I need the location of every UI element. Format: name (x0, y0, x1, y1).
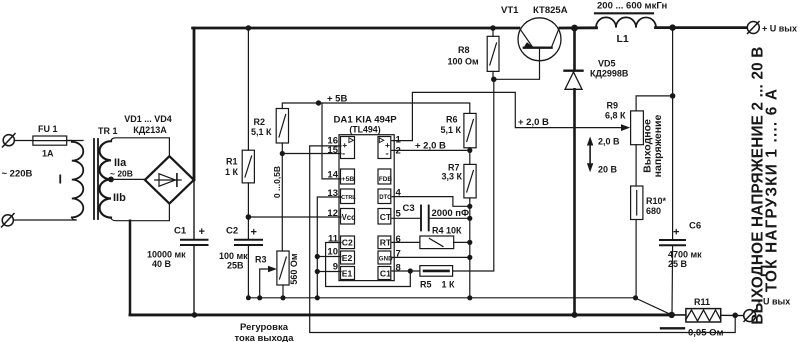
svg-text:RT: RT (380, 238, 392, 248)
label R1 1K (225, 157, 239, 178)
svg-text:R6: R6 (446, 115, 458, 125)
svg-text:DTC: DTC (379, 195, 392, 201)
node R8 rail junction (490, 25, 496, 31)
fuse FU1 (33, 136, 83, 145)
label Vykhodnoe napryazhenie vertical (642, 114, 665, 177)
wire bus diagonal to output minus junction (635, 298, 672, 315)
svg-text:КД213А: КД213А (133, 125, 167, 135)
svg-text:+ 2,0 В: + 2,0 В (415, 141, 446, 152)
wire R2 to R3 node 0...0,5V (281, 154, 283, 252)
wire pin 1 to voltage set (392, 92, 624, 140)
transformer TR1 secondary winding IIa (100, 141, 112, 179)
node R9 branch junction (670, 93, 676, 99)
wire pin 16 current sense line (310, 146, 736, 333)
wire R7 top (469, 150, 471, 164)
label 200...600 mkGn with underline (595, 1, 667, 14)
svg-text:8: 8 (396, 262, 401, 273)
potentiometer R3 (277, 251, 289, 285)
svg-text:GND: GND (379, 255, 393, 262)
svg-text:+: + (199, 226, 205, 238)
svg-text:+ U вых: + U вых (762, 24, 797, 34)
node R10 bus junction (633, 295, 638, 300)
wire junction down to VD5 (573, 28, 576, 70)
resistor R4 (420, 236, 454, 249)
svg-text:1 К: 1 К (225, 167, 239, 177)
chip cell FDB pin3 (378, 169, 392, 184)
node R3 wiper bus junction (257, 295, 262, 300)
svg-text:C2: C2 (226, 226, 238, 237)
svg-text:КТ825А: КТ825А (533, 5, 568, 16)
node +5V pin14 junction (316, 100, 321, 105)
wire C2 to common bus (248, 246, 634, 298)
svg-text:0,05 Ом: 0,05 Ом (688, 328, 724, 339)
wire C1 to minus bus (193, 246, 195, 315)
svg-text:C1: C1 (380, 268, 391, 278)
label output voltage current vertical line1 (750, 46, 767, 324)
wire R1 to Vcc node (247, 183, 249, 217)
node C1 bus junction (192, 312, 198, 318)
svg-text:тока выхода: тока выхода (235, 333, 295, 342)
diode symbol inside bridge (155, 174, 181, 186)
transformer TR1 primary winding I (67, 141, 84, 221)
svg-text:9: 9 (333, 262, 338, 273)
chip cell Vcc pin12 (341, 209, 357, 225)
svg-text:20 В: 20 В (598, 165, 618, 175)
wire divider common vertical (469, 206, 471, 297)
wire R10 to bus (635, 220, 637, 298)
node pin13 bus junction (315, 295, 320, 300)
node divider bus junction (467, 295, 472, 300)
wire C3 right (430, 217, 470, 219)
label C2 + (226, 226, 257, 239)
svg-text:25В: 25В (227, 261, 244, 271)
wire R11 to terminal (721, 314, 744, 316)
wire C6 to minus junction (671, 246, 674, 315)
svg-text:CT: CT (380, 212, 392, 222)
node R2 pin15 junction (280, 151, 285, 156)
wire pin 10 E2 (317, 256, 341, 258)
svg-text:R5 1 К: R5 1 К (420, 280, 455, 290)
svg-text:R11: R11 (694, 297, 710, 307)
svg-text:C2: C2 (342, 238, 353, 248)
wire top rail right segment (560, 26, 597, 29)
svg-text:VD1 ... VD4: VD1 ... VD4 (124, 114, 172, 124)
svg-text:5,1 К: 5,1 К (441, 125, 462, 135)
node R1 top rail junction (246, 25, 252, 31)
resistor R11 shunt (686, 309, 721, 322)
label 100mk 25V (219, 251, 248, 271)
chip cell +5B pin14 (341, 169, 355, 184)
wire R6 bottom (469, 148, 471, 151)
wire C6 branch vertical (672, 28, 674, 239)
node center tap (108, 177, 144, 183)
svg-text:10: 10 (327, 247, 338, 258)
node pin2 R6 R7 junction (467, 148, 472, 153)
node Vcc junction (246, 214, 252, 220)
label Regurovka toka vykhoda (235, 322, 295, 342)
capacitor C1 (181, 240, 208, 245)
label FU1 1A (38, 124, 58, 159)
resistor R7 (464, 164, 476, 198)
node C2 bus corner (246, 295, 251, 300)
svg-text:+: + (251, 227, 257, 239)
wire R3 bottom to bus (282, 285, 284, 298)
wire pin 5 to C3 (392, 217, 420, 219)
chip cell DTC pin4 (378, 189, 392, 204)
label R8 100 Om (448, 45, 480, 67)
resistor R5 (420, 266, 453, 277)
label VD1...VD4 KD213A (124, 114, 172, 135)
svg-text:3,3 К: 3,3 К (442, 172, 463, 182)
label R6 5,1K (441, 115, 462, 136)
svg-text:C1: C1 (174, 226, 187, 237)
svg-text:14: 14 (327, 170, 338, 181)
wire branch to R9 top (636, 96, 673, 111)
svg-text:+5B: +5B (342, 176, 355, 183)
wire R8 to base node (492, 71, 494, 79)
wire base node to transistor base (494, 48, 540, 79)
bridge rectifier VD1...VD4 diamond (145, 156, 194, 203)
node E2 junction (315, 254, 320, 259)
svg-text:L1: L1 (617, 33, 629, 45)
svg-text:E2: E2 (342, 253, 353, 263)
arrowhead R9 wiper (621, 124, 630, 131)
chip left comparator cell (341, 137, 355, 160)
svg-text:VD5: VD5 (598, 59, 616, 69)
wire junction to R11 (672, 314, 686, 316)
chip cell CT pin5 (378, 209, 392, 225)
chip cell RT pin6 (378, 236, 392, 249)
svg-text:2000 пФ: 2000 пФ (432, 208, 470, 219)
node collector VD5 L1 junction (571, 25, 578, 32)
label DA1 KIA 494P (TL494) (334, 115, 398, 135)
svg-text:I: I (59, 173, 62, 187)
node base junction (491, 77, 497, 83)
svg-text:R9: R9 (607, 101, 619, 111)
wire R2 top to +5V rail (282, 103, 470, 113)
svg-text:+: + (673, 227, 679, 239)
wire minus bus thick bottom (130, 313, 672, 316)
inductor L1 (596, 17, 656, 27)
node R4 junction (467, 240, 472, 245)
wire secondary bottom lead to bridge (111, 205, 169, 221)
wire R3 wiper arrow (260, 266, 277, 298)
wire Vcc node to C2 (247, 217, 249, 239)
label R10* 680 (646, 196, 667, 216)
wire pin 11 to pin 8 loop (326, 243, 411, 287)
label 4700mk 25V (668, 250, 702, 270)
svg-text:R3: R3 (255, 255, 267, 265)
chip cell C2 pin11 (341, 236, 355, 249)
label R2 5,1K (251, 117, 272, 137)
potentiometer R9 (631, 111, 644, 145)
wire pin 9 E1 (317, 271, 341, 273)
svg-text:R10*: R10* (646, 196, 667, 206)
svg-text:6: 6 (396, 234, 401, 245)
wire bridge plus output up to top rail (193, 28, 196, 180)
label VT1 KT825A (501, 5, 568, 16)
svg-text:IIa: IIa (114, 157, 127, 169)
capacitor C3 (421, 206, 429, 231)
wire pin 8 to R5 (392, 270, 420, 272)
wire pin 7 GND (392, 256, 470, 258)
svg-text:КД2998В: КД2998В (590, 69, 629, 79)
svg-text:R4 10К: R4 10К (432, 226, 462, 236)
chip cell E2 pin10 (341, 251, 355, 264)
svg-text:560 Ом: 560 Ом (289, 253, 299, 285)
wire Vcc node to pin 12 (248, 216, 341, 218)
arrow voltage range (587, 137, 593, 173)
terminal output plus (747, 22, 759, 34)
wire rail to R8 (492, 28, 494, 36)
svg-text:200 ... 600 мкГн: 200 ... 600 мкГн (597, 1, 667, 12)
svg-text:25 В: 25 В (668, 259, 688, 269)
svg-text:-: - (342, 149, 345, 160)
node GND junction (467, 255, 472, 260)
svg-text:0 ...0,5В: 0 ...0,5В (272, 166, 282, 198)
node R7 pin4 junction (467, 204, 472, 209)
label output voltage current vertical line2 (764, 88, 781, 292)
svg-text:CTRL: CTRL (341, 195, 356, 201)
svg-text:6,8 К: 6,8 К (605, 111, 626, 121)
node VD5 bus junction (572, 312, 578, 318)
svg-text:40 В: 40 В (152, 259, 172, 269)
wire bridge to C1 (193, 180, 195, 239)
svg-text:12: 12 (327, 208, 338, 219)
svg-text:E1: E1 (342, 268, 353, 278)
svg-text:FU 1: FU 1 (38, 124, 58, 134)
chip cell C1 pin8 (378, 267, 391, 280)
svg-text:TR 1: TR 1 (98, 126, 118, 136)
wire secondary top lead to bridge (111, 138, 169, 155)
svg-text:Vcc: Vcc (342, 213, 357, 222)
wire pin 6 to R4 (392, 241, 420, 243)
node output minus junction (669, 312, 675, 318)
wire R7 bottom to node (469, 198, 471, 206)
transistor VT1 (518, 18, 561, 61)
svg-text:1А: 1А (42, 149, 54, 159)
wire pin 2 (392, 149, 470, 151)
transformer TR1 secondary winding IIb (100, 179, 112, 217)
wire R5 to base drive (453, 79, 494, 271)
node R3 bus junction (280, 295, 285, 300)
resistor R8 (487, 36, 499, 71)
chip cell CTRL pin13 (341, 189, 357, 204)
label C6 + (673, 221, 701, 239)
svg-text:100 мк: 100 мк (219, 251, 248, 261)
svg-text:+ 2,0 В: + 2,0 В (518, 117, 549, 128)
op-amp chip DA1 KIA494P outline (339, 135, 394, 281)
svg-text:ТОК НАГРУЗКИ 1 .... 6 А: ТОК НАГРУЗКИ 1 .... 6 А (764, 88, 781, 292)
svg-text:C6: C6 (689, 221, 701, 232)
transformer TR1 core (94, 139, 98, 219)
node R11 sense junction (732, 313, 738, 319)
ground tick mark (661, 327, 684, 329)
svg-text:R8: R8 (458, 45, 470, 55)
svg-text:R2: R2 (254, 117, 266, 127)
label 10000mk 40V (147, 250, 186, 270)
capacitor C6 (660, 240, 685, 245)
resistor R10 (631, 186, 643, 220)
label R7 3,3K (442, 163, 463, 182)
svg-text:~ 220В: ~ 220В (2, 169, 33, 180)
wire R9 to R10 (635, 145, 637, 186)
svg-text:2,0 В: 2,0 В (598, 137, 620, 147)
terminal input bottom ~220V (2, 214, 77, 228)
label VD5 KD2998V (590, 59, 629, 79)
svg-text:680: 680 (646, 206, 661, 216)
capacitor C2 (235, 240, 262, 245)
wire pin 13 common (317, 197, 341, 298)
resistor R1 (242, 150, 254, 183)
svg-text:Регуровка: Регуровка (240, 322, 289, 333)
wire VD5 anode to minus bus (573, 89, 576, 315)
diode VD5 (565, 71, 583, 90)
svg-text:5,1 К: 5,1 К (251, 127, 272, 137)
wire R2 bottom to pin 15 (282, 143, 341, 154)
svg-text:IIb: IIb (113, 192, 126, 204)
terminal input top ~220V (3, 134, 33, 148)
node C3 junction (467, 216, 472, 221)
wire R4 right (454, 241, 470, 243)
chip cell E1 pin9 (341, 267, 355, 280)
svg-text:VT1: VT1 (501, 5, 519, 16)
label IIa ~20V (110, 157, 133, 179)
svg-text:+ 5В: + 5В (327, 94, 347, 105)
terminal output minus (744, 310, 756, 322)
resistor R2 (276, 109, 288, 144)
svg-text:-: - (386, 149, 389, 160)
svg-text:FDB: FDB (379, 176, 393, 183)
svg-text:напряжение: напряжение (652, 114, 664, 177)
wire pin 14 to +5V rail (322, 103, 341, 179)
wire center tap branch down to minus bus (129, 221, 132, 315)
resistor R6 (464, 113, 476, 147)
chip right comparator cell (378, 137, 391, 160)
chip cell GND pin7 (378, 251, 393, 264)
svg-text:R1: R1 (226, 157, 238, 167)
node L1 C6 rail junction (669, 24, 675, 30)
svg-text:C3: C3 (403, 203, 415, 214)
label R9 6,8K (605, 101, 626, 121)
svg-text:100 Ом: 100 Ом (448, 57, 480, 67)
node pin8 junction (408, 268, 413, 273)
wire pin 4 (392, 197, 470, 207)
node E1 junction (315, 269, 320, 274)
svg-text:10000 мк: 10000 мк (147, 250, 186, 260)
wire rail down to R1 (247, 28, 249, 150)
wire top rail left segment (193, 27, 519, 30)
label C1 + (174, 226, 205, 239)
svg-text:(TL494): (TL494) (349, 125, 380, 135)
svg-text:~ 20В: ~ 20В (110, 169, 133, 179)
